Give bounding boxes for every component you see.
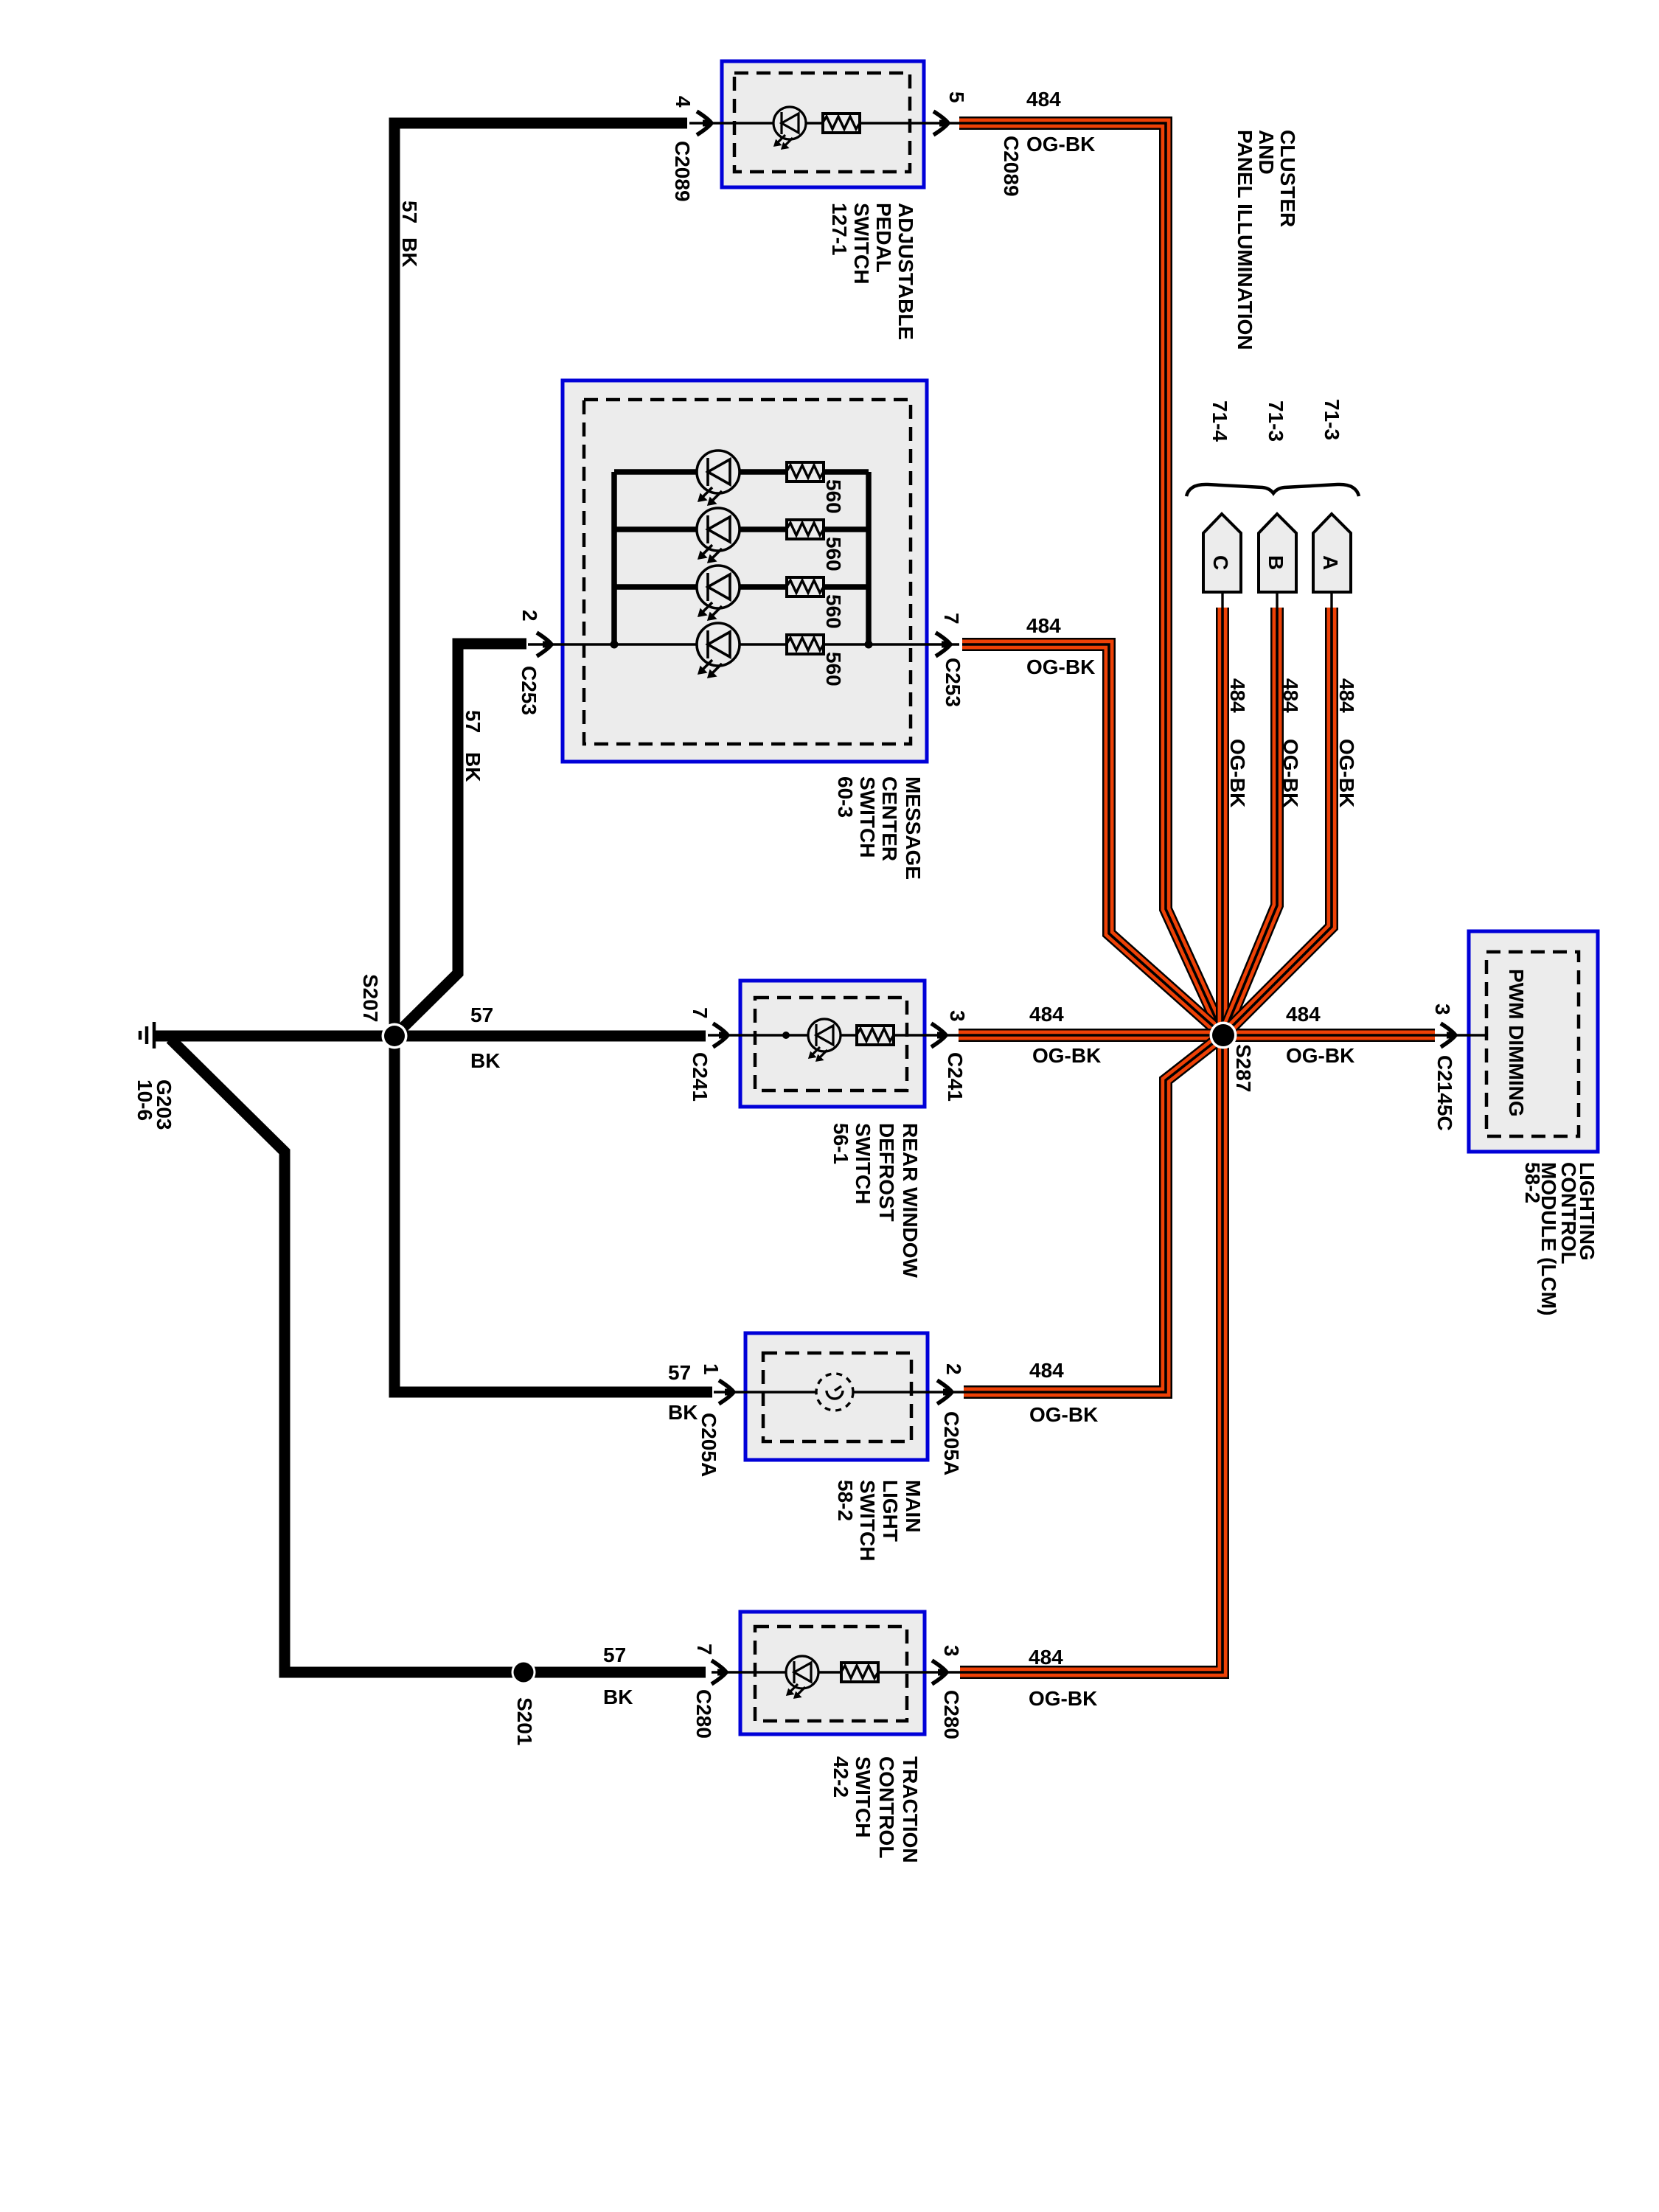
svg-text:SWITCH: SWITCH [852, 1123, 874, 1204]
svg-text:TRACTION: TRACTION [899, 1756, 922, 1863]
svg-text:C2089: C2089 [671, 141, 694, 202]
svg-text:C: C [1209, 555, 1232, 570]
svg-text:57: 57 [398, 201, 421, 223]
wire: OG-BK 484 S287 to LCM pin 3 C2145C [1223, 1029, 1435, 1042]
svg-text:PANEL ILLUMINATION: PANEL ILLUMINATION [1234, 130, 1256, 350]
svg-text:BK: BK [668, 1401, 698, 1424]
svg-text:42-2: 42-2 [829, 1756, 852, 1798]
svg-text:OG-BK: OG-BK [1029, 1687, 1097, 1710]
junction dot rear defrost [782, 1032, 790, 1039]
svg-text:A: A [1319, 555, 1342, 570]
svg-text:58-2: 58-2 [834, 1480, 857, 1521]
brace over connectors A B C [1186, 484, 1359, 496]
svg-text:SWITCH: SWITCH [852, 1756, 874, 1837]
svg-text:AND: AND [1255, 130, 1278, 175]
main light switch box 58-2 [745, 1333, 928, 1460]
svg-text:57: 57 [462, 710, 484, 733]
wire: thin lead main light switch row [714, 1391, 964, 1393]
connector C pentagon [1203, 514, 1241, 592]
svg-text:560: 560 [822, 652, 845, 686]
svg-text:560: 560 [822, 479, 845, 514]
svg-text:ADJUSTABLE: ADJUSTABLE [894, 203, 917, 340]
svg-text:1: 1 [700, 1363, 723, 1375]
bulb in traction control switch [786, 1656, 818, 1698]
traction control switch box 42-2 [740, 1612, 925, 1734]
bulb row 4 message center [697, 623, 740, 678]
connector arrow C205A pin 2 [937, 1380, 952, 1404]
svg-text:484: 484 [1029, 1646, 1063, 1669]
svg-text:7: 7 [940, 613, 963, 625]
svg-text:C205A: C205A [940, 1411, 963, 1475]
svg-text:S207: S207 [359, 974, 382, 1022]
svg-text:SWITCH: SWITCH [856, 776, 879, 858]
svg-text:OG-BK: OG-BK [1029, 1403, 1098, 1426]
svg-text:LIGHT: LIGHT [879, 1480, 902, 1542]
svg-text:C241: C241 [944, 1052, 967, 1102]
svg-text:DEFROST: DEFROST [875, 1123, 898, 1222]
wire: OG-BK 484 rear window defrost switch pin 3 to S287 [959, 1029, 1223, 1042]
ground G203 symbol [140, 1022, 154, 1048]
message center internal bus wires [611, 472, 873, 649]
svg-text:57: 57 [470, 1004, 493, 1026]
svg-text:3: 3 [940, 1645, 963, 1657]
svg-text:MAIN: MAIN [902, 1480, 925, 1533]
svg-text:71-4: 71-4 [1208, 400, 1231, 442]
svg-text:SWITCH: SWITCH [850, 203, 873, 284]
wire: thin lead traction control switch row [712, 1671, 960, 1673]
connector arrow C2089 pin 4 [697, 111, 712, 135]
svg-text:60-3: 60-3 [834, 776, 857, 818]
wire: thin lead connector A [1330, 591, 1332, 608]
svg-text:484: 484 [1286, 1003, 1321, 1026]
connector arrow C241 pin 3 [931, 1023, 946, 1047]
wire: thin lead adjustable pedal switch row [689, 122, 960, 124]
resistor 560 row 3 message center [787, 577, 824, 597]
svg-text:MESSAGE: MESSAGE [902, 776, 925, 880]
svg-text:560: 560 [822, 537, 845, 571]
svg-text:OG-BK: OG-BK [1026, 655, 1095, 678]
wire: OG-BK 484 message center switch pin 7 to S287 [962, 644, 1223, 1035]
svg-text:484: 484 [1026, 88, 1061, 111]
svg-text:C205A: C205A [698, 1413, 720, 1477]
connector arrow C241 pin 7 [713, 1023, 728, 1047]
svg-text:4: 4 [672, 96, 695, 108]
lamp symbol in main light switch [816, 1374, 853, 1411]
svg-text:S287: S287 [1232, 1044, 1255, 1092]
wire: BK 57 from message center switch pin 2 to S207 [396, 644, 526, 1034]
svg-text:484: 484 [1279, 678, 1302, 713]
wire: BK 57 ground branch down to S201 and traction control switch pin 7 [170, 1039, 706, 1672]
svg-text:58-2: 58-2 [1521, 1162, 1544, 1203]
svg-text:OG-BK: OG-BK [1279, 739, 1302, 807]
wire: OG-BK 484 connector B down to S287 [1223, 608, 1277, 1035]
svg-text:CONTROL: CONTROL [875, 1756, 898, 1858]
svg-text:7: 7 [693, 1644, 716, 1655]
svg-text:BK: BK [603, 1686, 633, 1708]
svg-text:BK: BK [470, 1049, 500, 1072]
svg-text:484: 484 [1226, 678, 1249, 713]
wire: OG-BK 484 S287 down to traction control switch pin 3 [960, 1035, 1222, 1672]
bulb in adjustable pedal switch [773, 107, 806, 149]
svg-text:10-6: 10-6 [133, 1079, 156, 1121]
svg-text:PEDAL: PEDAL [872, 203, 895, 273]
resistor 560 row 4 message center [787, 635, 824, 654]
svg-text:C280: C280 [692, 1689, 715, 1739]
svg-text:BK: BK [462, 752, 484, 782]
svg-text:56-1: 56-1 [829, 1123, 852, 1164]
svg-text:OG-BK: OG-BK [1032, 1044, 1101, 1067]
resistor in rear window defrost switch [857, 1026, 894, 1045]
svg-text:OG-BK: OG-BK [1226, 739, 1249, 807]
svg-text:C241: C241 [689, 1052, 712, 1102]
connector arrow C280 pin 3 [932, 1660, 947, 1684]
svg-text:OG-BK: OG-BK [1335, 739, 1358, 807]
wire: BK 57 ground trunk G203 to S207 to rear defrost switch pin 7 [156, 1031, 706, 1042]
connector B pentagon [1259, 514, 1296, 592]
wire: thin lead LCM pin 3 [1435, 1034, 1487, 1036]
bulb row 3 message center [697, 566, 740, 620]
resistor in adjustable pedal switch [823, 114, 860, 133]
splice S287 [1210, 1022, 1237, 1049]
svg-text:OG-BK: OG-BK [1286, 1044, 1354, 1067]
connector arrow C2145C pin 3 [1441, 1023, 1455, 1047]
resistor 560 row 2 message center [787, 520, 824, 539]
svg-text:3: 3 [946, 1010, 969, 1022]
svg-text:C253: C253 [942, 658, 964, 707]
message center switch box 60-3 [563, 380, 927, 762]
wire: OG-BK 484 main light switch pin 2 up to S287 [964, 1035, 1223, 1392]
svg-text:560: 560 [822, 594, 845, 629]
svg-text:57: 57 [668, 1361, 691, 1384]
svg-text:C2089: C2089 [1000, 136, 1023, 197]
svg-text:SWITCH: SWITCH [856, 1480, 879, 1561]
svg-text:484: 484 [1335, 678, 1358, 713]
resistor 560 row 1 message center [787, 462, 824, 481]
resistor in traction control switch [841, 1663, 878, 1682]
svg-text:57: 57 [603, 1644, 626, 1666]
wire: thin lead connector C [1221, 591, 1223, 608]
svg-text:OG-BK: OG-BK [1026, 133, 1095, 156]
svg-text:2: 2 [518, 610, 541, 622]
svg-text:CLUSTER: CLUSTER [1276, 130, 1299, 227]
svg-text:2: 2 [942, 1363, 965, 1375]
svg-text:484: 484 [1026, 614, 1061, 637]
splice S201 [512, 1660, 536, 1685]
svg-text:484: 484 [1029, 1003, 1064, 1026]
rear window defrost switch box 56-1 [740, 981, 925, 1107]
svg-text:C2145C: C2145C [1433, 1055, 1456, 1131]
svg-text:127-1: 127-1 [828, 203, 851, 256]
connector arrow C253 pin 2 [537, 633, 552, 656]
svg-text:C280: C280 [940, 1690, 963, 1739]
svg-text:BK: BK [398, 237, 421, 267]
adjustable pedal switch box 127-1 [722, 61, 924, 187]
connector arrow C205A pin 1 [719, 1380, 734, 1404]
svg-text:71-3: 71-3 [1265, 400, 1287, 442]
wire: OG-BK 484 connector C down to S287 [1216, 608, 1229, 1035]
svg-text:PWM DIMMING: PWM DIMMING [1505, 969, 1528, 1117]
svg-text:5: 5 [945, 91, 968, 103]
splice S207 [382, 1023, 408, 1049]
bulb row 2 message center [697, 508, 740, 563]
wire: BK 57 from adjustable pedal switch pin 4 to S207 [394, 123, 687, 1036]
wire: thin lead rear window defrost switch row [708, 1034, 959, 1036]
svg-text:C253: C253 [518, 666, 540, 715]
connector arrow C253 pin 7 [936, 633, 950, 656]
svg-text:71-3: 71-3 [1321, 399, 1343, 440]
svg-text:CENTER: CENTER [878, 776, 901, 861]
wire: OG-BK 484 adjustable pedal switch pin 5 to S287 [959, 123, 1223, 1035]
svg-text:7: 7 [689, 1007, 712, 1019]
wire: BK 57 from S207 down to main light switch pin 1 [394, 1036, 712, 1392]
svg-text:3: 3 [1431, 1004, 1454, 1015]
lighting control module box 58-2 [1469, 931, 1598, 1152]
connector arrow C2089 pin 5 [933, 111, 948, 135]
bulb in rear window defrost switch [808, 1019, 841, 1061]
svg-text:S201: S201 [513, 1697, 536, 1745]
svg-text:B: B [1265, 555, 1287, 570]
svg-text:484: 484 [1029, 1359, 1064, 1382]
connector arrow C280 pin 7 [712, 1660, 726, 1684]
bulb row 1 message center [697, 451, 740, 505]
wire: thin lead message center switch row 4 [528, 643, 959, 645]
wire: OG-BK 484 connector A down to S287 [1223, 608, 1332, 1035]
connector A pentagon [1313, 514, 1351, 592]
wire: thin lead connector B [1276, 591, 1278, 608]
svg-text:REAR WINDOW: REAR WINDOW [899, 1123, 922, 1279]
